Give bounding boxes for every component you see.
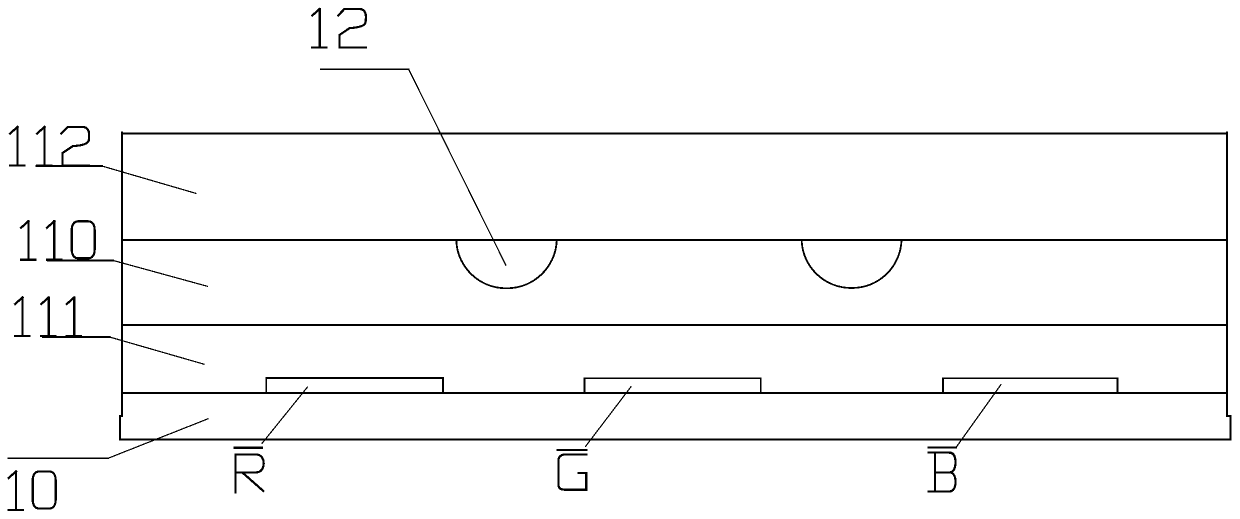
- label R with overline: [235, 448, 264, 493]
- substrate 10 right stepped edge: [1227, 416, 1231, 440]
- leader line for 110: [48, 260, 113, 262]
- groove notch semicircle right: [802, 241, 902, 289]
- label G with overline: [558, 450, 586, 490]
- label 112: [10, 127, 89, 166]
- electrode pad B: [943, 378, 1118, 393]
- layer 111 bottom boundary line: [122, 392, 1227, 394]
- electrode pad R: [266, 378, 443, 393]
- layer 110/111 boundary line: [122, 324, 1227, 326]
- leader line for 12: [321, 68, 409, 70]
- layer 112 top boundary line: [122, 133, 1227, 135]
- groove notch semicircle left: [456, 241, 556, 288]
- leader line for 112: [36, 165, 102, 167]
- leader line for 10: [8, 457, 108, 459]
- layer 112/110 boundary line: [122, 239, 1227, 241]
- electrode pad G: [584, 378, 760, 393]
- layer stack outer rectangle right edge: [1226, 133, 1228, 416]
- leader line for B: [956, 385, 1001, 448]
- layer stack outer rectangle left edge: [121, 133, 123, 416]
- label 111: [15, 297, 81, 336]
- leader line for G: [586, 387, 632, 447]
- label B with overline: [929, 448, 956, 492]
- label 12: [312, 9, 366, 48]
- label 10: [9, 471, 56, 510]
- leader line for R: [262, 387, 308, 443]
- label 110: [21, 221, 95, 260]
- substrate 10 bottom boundary line: [120, 439, 1231, 441]
- leader line for 111: [43, 336, 110, 338]
- substrate 10 left stepped edge: [120, 416, 122, 440]
